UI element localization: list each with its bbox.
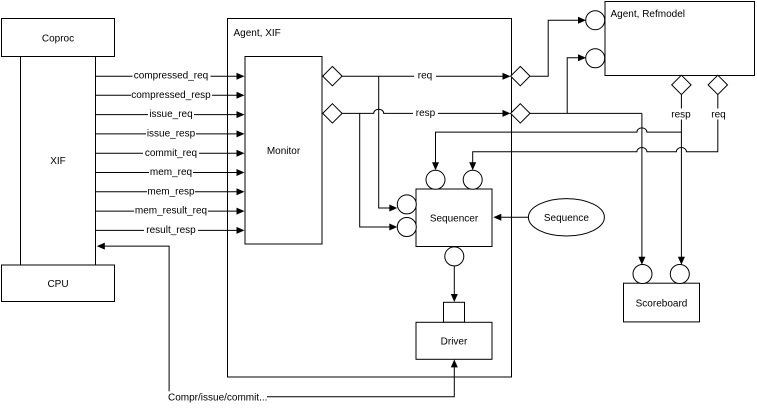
wire resp (monitor to refmodel, with hop) [342,54,642,119]
svg-text:mem_result_req: mem_result_req [135,206,207,217]
wire result_resp [96,225,245,236]
block Scoreboard [624,283,700,322]
svg-text:commit_req: commit_req [145,148,197,159]
wire compressed_req [96,71,245,82]
port circle scoreboard 1 [633,265,652,284]
svg-text:Compr/issue/commit...: Compr/issue/commit... [168,392,267,403]
wire driver to xif (Compr/issue/commit...) [97,243,458,404]
diamond monitor resp [323,104,342,123]
container Agent, XIF [228,19,512,378]
diamond refmodel resp out [672,75,691,94]
block Agent, Refmodel [605,2,755,76]
svg-text:CPU: CPU [47,279,68,290]
block XIF [21,57,96,266]
svg-text:Scoreboard: Scoreboard [636,299,688,310]
svg-text:compressed_req: compressed_req [134,71,208,82]
svg-text:issue_req: issue_req [149,109,192,120]
svg-text:resp: resp [671,110,691,121]
port circle refmodel in 2 [586,49,605,68]
svg-text:mem_resp: mem_resp [147,186,195,197]
svg-text:req: req [711,110,725,121]
wire sequencer to driver square [451,266,458,302]
svg-text:Agent, XIF: Agent, XIF [234,28,281,39]
svg-text:Driver: Driver [441,337,468,348]
ellipse Sequence [528,199,604,236]
block Driver [416,322,492,359]
wire issue_resp [96,128,245,139]
wire mem_result_req [96,206,245,217]
wire resp branch to sequencer port [360,113,398,230]
svg-text:Sequence: Sequence [544,213,589,224]
svg-text:Monitor: Monitor [267,146,301,157]
svg-text:compressed_resp: compressed_resp [131,90,211,101]
wire mem_req [96,167,245,178]
diamond refmodel req out [708,75,727,94]
port circle sequencer left 1 [397,195,416,214]
block Sequencer [416,189,492,247]
port circle refmodel in 1 [586,11,605,30]
svg-text:mem_req: mem_req [150,167,192,178]
wire refmodel resp diamond down to scoreboard [669,95,693,265]
port circle scoreboard 2 [670,265,689,284]
svg-text:resp: resp [416,108,436,119]
block Monitor [245,57,322,245]
svg-text:req: req [418,71,432,82]
port circle sequencer left 2 [397,218,416,237]
port circle sequencer top 1 [426,170,445,189]
svg-text:Agent, Refmodel: Agent, Refmodel [611,9,686,20]
svg-text:Sequencer: Sequencer [430,214,479,225]
wire monitor resp down to scoreboard [638,113,645,264]
svg-text:result_resp: result_resp [146,225,196,236]
wire refmodel req diamond to sequencer export (y=151.7) [469,95,730,171]
wire req branch to sequencer port [379,76,398,211]
diamond right resp [511,104,530,123]
wire req (monitor to refmodel) [342,17,586,82]
wire refmodel resp to sequencer export (y=132) [432,128,681,170]
diamond right req [511,66,530,85]
wire compressed_resp [96,90,245,101]
wire sequence to sequencer [493,214,528,221]
svg-text:issue_resp: issue_resp [147,129,196,140]
diamond monitor req [323,66,342,85]
svg-text:Coproc: Coproc [42,34,74,45]
driver in square [444,302,465,322]
port circle sequencer bottom [445,247,464,266]
wire commit_req [96,148,245,159]
wire mem_resp [96,186,245,197]
port circle sequencer top 2 [463,170,482,189]
block CPU [2,265,115,302]
wire issue_req [96,109,245,120]
block Coproc [2,19,115,57]
svg-text:XIF: XIF [50,156,66,167]
